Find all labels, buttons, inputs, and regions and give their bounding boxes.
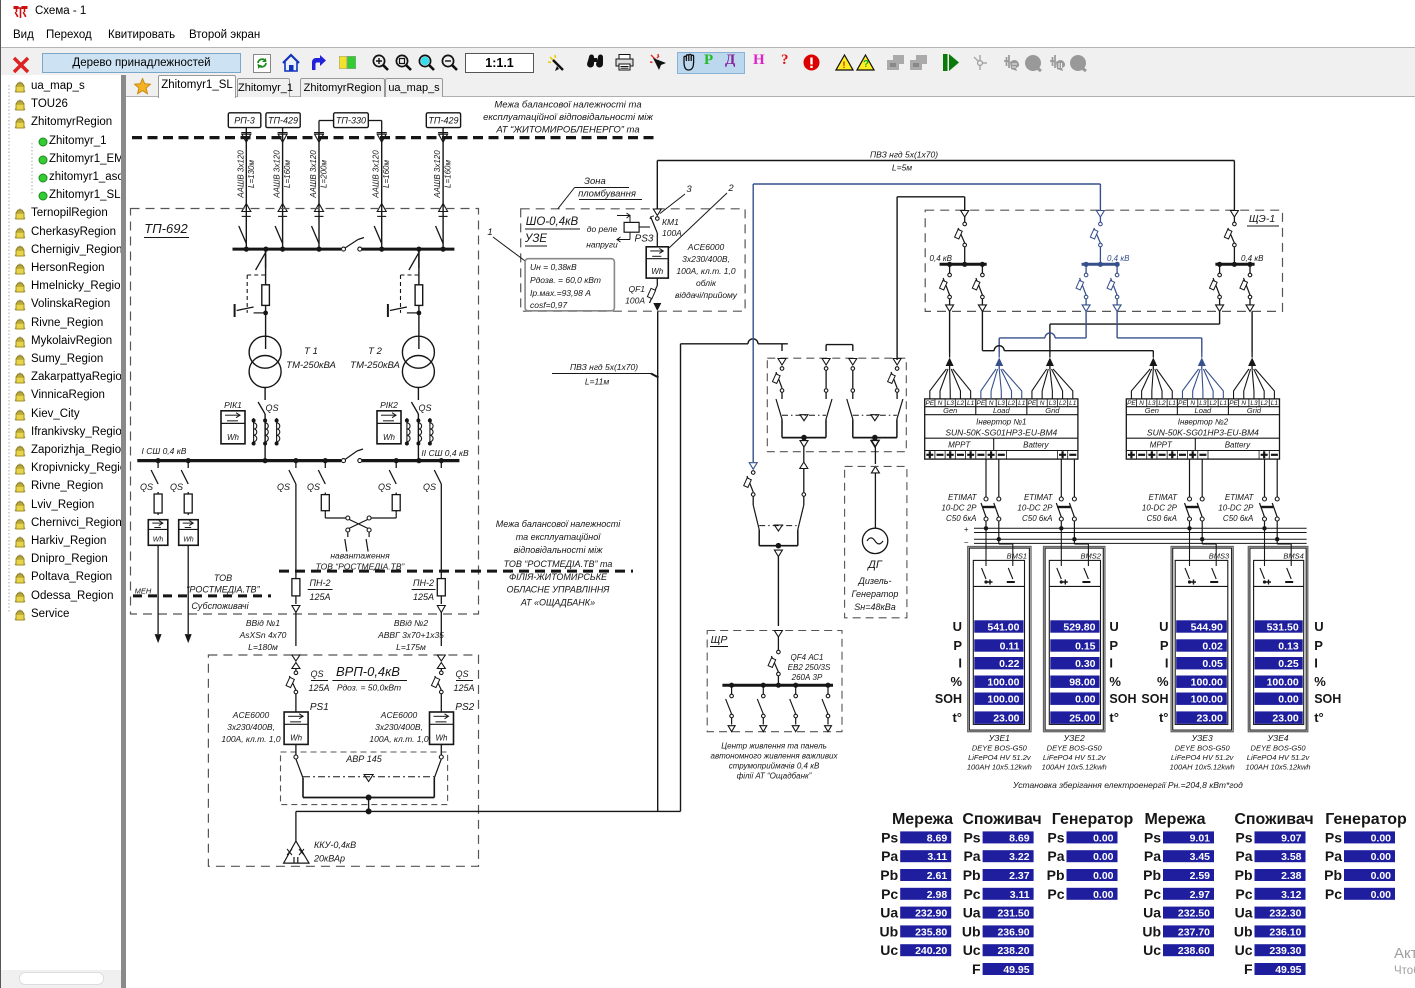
svg-text:125А: 125А xyxy=(308,683,329,693)
svg-text:232.30: 232.30 xyxy=(1269,908,1301,920)
measurement table Генератор @1065 xyxy=(1047,811,1134,902)
svg-text:УЗЕ3: УЗЕ3 xyxy=(1191,733,1213,743)
svg-text:PE: PE xyxy=(1178,400,1187,407)
svg-text:541.00: 541.00 xyxy=(987,621,1019,633)
meter РІК1 (Wh) xyxy=(221,400,245,444)
svg-text:Межа балансової належності: Межа балансової належності xyxy=(496,519,622,529)
measurement labels col2 xyxy=(1109,619,1136,725)
svg-text:С50 6кА: С50 6кА xyxy=(946,514,976,523)
svg-text:Pc: Pc xyxy=(963,886,980,902)
svg-text:F: F xyxy=(972,961,981,977)
svg-text:ШО-0,4кВ: ШО-0,4кВ xyxy=(526,216,579,228)
breaker ЕТІМАТ 4 10-DC 2Р С50 6кА xyxy=(1260,459,1280,541)
svg-text:3х230/400В,: 3х230/400В, xyxy=(227,722,275,732)
svg-text:до реле: до реле xyxy=(587,224,618,234)
svg-text:0.02: 0.02 xyxy=(1202,640,1223,652)
svg-text:віддачі/прийому: віддачі/прийому xyxy=(675,290,738,300)
svg-text:544.90: 544.90 xyxy=(1191,621,1223,633)
battery cabinet УЗЕ1 (BMS1) xyxy=(968,528,1031,731)
svg-text:автономного живлення важливих: автономного живлення важливих xyxy=(711,752,839,761)
svg-text:РІК2: РІК2 xyxy=(380,400,398,410)
svg-text:ДГ: ДГ xyxy=(866,559,883,571)
svg-text:49.95: 49.95 xyxy=(1003,964,1029,976)
svg-text:0.00: 0.00 xyxy=(1371,832,1392,844)
svg-text:L=160м: L=160м xyxy=(382,160,391,188)
label ПВЗ нгд 5х(1х70) L=5м xyxy=(870,150,938,173)
ЩЭ-1 section 2 outgoing switch 1 xyxy=(1076,264,1090,311)
svg-text:ЕВ2 250/3S: ЕВ2 250/3S xyxy=(788,663,831,672)
svg-text:Wh: Wh xyxy=(153,536,164,543)
svg-text:0.00: 0.00 xyxy=(1093,851,1114,863)
svg-text:ОБЛАСНЕ УПРАВЛІННЯ: ОБЛАСНЕ УПРАВЛІННЯ xyxy=(507,585,611,595)
callout 3 with leader xyxy=(660,184,692,214)
svg-text:Pb: Pb xyxy=(1047,867,1065,883)
svg-text:100А, кл.т. 1,0: 100А, кл.т. 1,0 xyxy=(221,734,281,744)
svg-text:SOH: SOH xyxy=(1141,692,1168,706)
svg-text:Зона: Зона xyxy=(584,176,606,187)
svg-text:Uc: Uc xyxy=(880,942,898,958)
svg-text:U: U xyxy=(1109,619,1118,634)
svg-text:0.00: 0.00 xyxy=(1371,870,1392,882)
fuse label ПН-2 125А (2) xyxy=(412,578,436,602)
svg-text:0.00: 0.00 xyxy=(1371,889,1392,901)
svg-text:100.00: 100.00 xyxy=(987,694,1019,706)
label УЗЕ xyxy=(524,233,548,246)
svg-text:PS3: PS3 xyxy=(635,234,654,245)
АВР 145 dashed box xyxy=(281,752,448,805)
svg-text:Ps: Ps xyxy=(963,829,980,845)
svg-text:238.60: 238.60 xyxy=(1178,945,1210,957)
svg-text:3х230/400В,: 3х230/400В, xyxy=(682,254,730,264)
ЩЭ-1 section 2 input breaker xyxy=(1090,211,1104,264)
svg-text:PE: PE xyxy=(1127,400,1136,407)
svg-text:BMS1: BMS1 xyxy=(1007,552,1027,561)
TP-692 substation dashed box xyxy=(131,209,479,615)
svg-text:SOH: SOH xyxy=(1109,692,1136,706)
svg-text:I: I xyxy=(958,656,962,671)
battery cabinet УЗЕ3 (BMS3) xyxy=(1171,528,1233,731)
svg-text:98.00: 98.00 xyxy=(1069,677,1095,689)
svg-text:23.00: 23.00 xyxy=(1197,712,1223,724)
feeder cable 3 ААШВ 3х120 L=200м xyxy=(309,133,329,250)
svg-text:Дизель-: Дизель- xyxy=(858,576,892,586)
svg-text:Ub: Ub xyxy=(1234,923,1253,939)
svg-text:3.11: 3.11 xyxy=(1010,889,1030,901)
svg-text:PE: PE xyxy=(1229,400,1238,407)
svg-text:“РОСТМЕДІА.ТВ”: “РОСТМЕДІА.ТВ” xyxy=(186,585,260,595)
svg-text:ТП-692: ТП-692 xyxy=(144,221,188,236)
label ЩЭ-1 xyxy=(1247,213,1279,226)
svg-text:100АН 10х5.12kwh: 100АН 10х5.12kwh xyxy=(1042,763,1107,772)
label ТП-692 xyxy=(144,221,189,238)
svg-text:231.50: 231.50 xyxy=(997,908,1029,920)
inverter №1 box SUN-50K-SG01HP3-EU-BM4 xyxy=(925,399,1078,459)
svg-text:PS1: PS1 xyxy=(310,702,329,713)
svg-text:%: % xyxy=(1157,674,1169,689)
ATS-A input 1 (building) xyxy=(772,359,786,400)
svg-text:SUN-50K-SG01HP3-EU-BM4: SUN-50K-SG01HP3-EU-BM4 xyxy=(1147,427,1259,437)
svg-text:Споживач: Споживач xyxy=(962,811,1041,828)
wire ATS-C to generator xyxy=(871,438,879,529)
svg-text:Grid: Grid xyxy=(1045,406,1060,415)
svg-text:Ps: Ps xyxy=(1235,829,1252,845)
svg-text:L=160м: L=160м xyxy=(444,160,453,188)
svg-text:ТМ-250кВА: ТМ-250кВА xyxy=(350,360,400,371)
svg-text:Споживач: Споживач xyxy=(1234,811,1313,828)
svg-text:3.58: 3.58 xyxy=(1281,851,1302,863)
svg-text:АТ «ОЩАДБАНК»: АТ «ОЩАДБАНК» xyxy=(520,598,595,608)
svg-text:L=175м: L=175м xyxy=(396,642,426,652)
svg-text:L2: L2 xyxy=(1059,400,1067,407)
svg-text:PE: PE xyxy=(1028,400,1037,407)
fuse label ПН-2 125А (1) xyxy=(308,578,333,602)
svg-text:Pa: Pa xyxy=(1047,848,1064,864)
svg-text:232.50: 232.50 xyxy=(1178,908,1210,920)
voltage relay xyxy=(617,213,650,242)
svg-text:АВВГ 3х70+1х35: АВВГ 3х70+1х35 xyxy=(377,630,444,640)
svg-text:Pb: Pb xyxy=(1143,867,1161,883)
svg-text:239.30: 239.30 xyxy=(1269,945,1301,957)
svg-text:Pc: Pc xyxy=(1047,886,1064,902)
transformer T1 circles xyxy=(249,336,281,387)
svg-text:ВВід №1: ВВід №1 xyxy=(246,618,280,628)
measurement labels col1 (left) xyxy=(935,619,963,725)
callout 2 with leader xyxy=(669,183,734,248)
ЩР outgoing feeder 1 xyxy=(726,683,736,732)
svg-text:3: 3 xyxy=(686,184,692,195)
label ДГ Дизель-Генератор Sн=48кВа xyxy=(852,559,899,612)
svg-text:МЕН: МЕН xyxy=(135,587,152,596)
svg-text:С50 6кА: С50 6кА xyxy=(1147,514,1177,523)
label Центр живлення ... Ощадбанк xyxy=(711,742,839,781)
svg-text:10-DC 2Р: 10-DC 2Р xyxy=(1218,504,1254,513)
specs box Uн/Рдозв/Ір.мах/cosf xyxy=(525,259,614,311)
svg-text:напруги: напруги xyxy=(586,240,618,250)
measurement labels col3 xyxy=(1141,619,1169,725)
wire ЩЭ-1 sec1 to inverter1 Gen xyxy=(949,311,951,352)
svg-text:I: I xyxy=(1165,656,1169,671)
svg-text:УЗЕ4: УЗЕ4 xyxy=(1266,733,1288,743)
svg-text:QS: QS xyxy=(277,482,290,492)
svg-text:2.38: 2.38 xyxy=(1281,870,1302,882)
feeder cable 5 ААШВ 3х120 L=160м xyxy=(433,128,453,250)
transformer branch T2 xyxy=(388,249,423,349)
ЩР outgoing feeder 3 xyxy=(790,683,800,732)
substation link boxes РП-3 / ТП-429 / ТП-330 / ТП-429 xyxy=(228,113,460,133)
feeder to ВВід №2 xyxy=(423,461,445,646)
label T1 ТМ-250кВА xyxy=(286,346,336,371)
svg-text:U: U xyxy=(1159,619,1168,634)
svg-text:240.20: 240.20 xyxy=(915,945,947,957)
ЩЭ-1 bus section 3 xyxy=(1215,262,1254,267)
boundary note РОСТМЕДІА/ЖИТОМИРСЬКЕ xyxy=(496,519,622,608)
svg-text:!: ! xyxy=(843,60,846,70)
svg-text:L2: L2 xyxy=(1261,400,1269,407)
svg-text:3.45: 3.45 xyxy=(1190,851,1211,863)
svg-text:−: − xyxy=(964,538,969,547)
svg-text:РП-3: РП-3 xyxy=(234,116,255,126)
junction to output bus xyxy=(366,798,372,815)
svg-text:Battery: Battery xyxy=(1023,440,1049,449)
svg-text:Pa: Pa xyxy=(881,848,898,864)
svg-text:Інвертор №2: Інвертор №2 xyxy=(1178,417,1229,426)
svg-text:LiFePO4 HV 51.2v: LiFePO4 HV 51.2v xyxy=(968,753,1032,762)
svg-text:0.15: 0.15 xyxy=(1075,640,1096,652)
label QF1 100А xyxy=(625,284,645,306)
inverter №1 Load wire fan xyxy=(981,366,1022,399)
ATS-B right input (from ATS-A) xyxy=(800,462,808,505)
ATS-C transfer mechanism (to generator) xyxy=(847,399,903,447)
label ШО-0,4кВ xyxy=(525,216,580,229)
svg-text:238.20: 238.20 xyxy=(997,945,1029,957)
svg-text:100.00: 100.00 xyxy=(1267,677,1299,689)
svg-text:Battery: Battery xyxy=(1225,440,1251,449)
0.4kV bus II СШ xyxy=(362,448,469,461)
svg-text:ТП-330: ТП-330 xyxy=(336,116,366,126)
svg-text:Актив: Актив xyxy=(1394,945,1415,962)
generator ДГ symbol xyxy=(862,528,887,553)
svg-text:0.00: 0.00 xyxy=(1371,851,1392,863)
svg-text:L2: L2 xyxy=(957,400,965,407)
ATS-A transfer mechanism xyxy=(776,399,832,462)
ЩЭ-1 bus section 2 xyxy=(1082,262,1120,267)
svg-text:РІК1: РІК1 xyxy=(224,400,242,410)
jumper п-bridge xyxy=(826,345,853,351)
svg-text:2.97: 2.97 xyxy=(1190,889,1211,901)
measurement table Споживач @981 xyxy=(962,811,1042,977)
svg-text:ACE6000: ACE6000 xyxy=(687,242,725,252)
ЩЭ-1 section 1 outgoing switch 2 xyxy=(972,264,986,311)
reserve feeder QS (right) xyxy=(378,461,400,513)
label QF4 АС1 ЕВ2 250/3S 260А 3Р xyxy=(788,653,831,682)
svg-text:Pb: Pb xyxy=(963,867,981,883)
measurement table Мережа @1162 xyxy=(1142,811,1214,958)
QS disconnector under T2 xyxy=(411,388,431,461)
svg-text:Т 2: Т 2 xyxy=(368,346,382,357)
svg-text:235.80: 235.80 xyxy=(915,926,947,938)
svg-text:ТОВ: ТОВ xyxy=(214,573,232,583)
svg-text:2.37: 2.37 xyxy=(1009,870,1030,882)
value stack УЗЕ2 xyxy=(1050,620,1099,724)
svg-text:260А 3Р: 260А 3Р xyxy=(791,673,823,682)
svg-text:ААШВ 3х120: ААШВ 3х120 xyxy=(433,150,442,199)
blue wire: ЩЭ-1 to АВР (ПВЗ) xyxy=(753,184,1100,462)
svg-text:Генератор: Генератор xyxy=(1325,811,1407,828)
svg-text:Ps: Ps xyxy=(1325,829,1342,845)
svg-text:MPPT: MPPT xyxy=(948,440,971,449)
svg-text:%: % xyxy=(1109,674,1121,689)
svg-text:49.95: 49.95 xyxy=(1275,964,1301,976)
svg-text:Ps: Ps xyxy=(881,829,898,845)
svg-text:N: N xyxy=(1139,400,1144,407)
svg-text:237.70: 237.70 xyxy=(1178,926,1210,938)
output wire to riser xyxy=(296,810,681,812)
ATS-C input 1 xyxy=(849,359,857,400)
bus tie (open) 0.4kV xyxy=(342,449,364,463)
svg-text:0,4 кВ: 0,4 кВ xyxy=(930,254,953,263)
dashed boundary МЕН/Субспоживачі xyxy=(133,594,271,597)
svg-text:9.07: 9.07 xyxy=(1281,832,1302,844)
svg-text:облік: облік xyxy=(696,278,717,288)
svg-text:0,4 кВ: 0,4 кВ xyxy=(1241,254,1264,263)
svg-text:Load: Load xyxy=(993,406,1011,415)
svg-text:Ua: Ua xyxy=(880,905,898,921)
svg-text:I: I xyxy=(1314,656,1318,671)
svg-text:ПН-2: ПН-2 xyxy=(309,578,330,588)
svg-text:Ua: Ua xyxy=(1143,905,1161,921)
svg-text:Ua: Ua xyxy=(963,905,981,921)
svg-text:PS2: PS2 xyxy=(455,702,474,713)
svg-text:125А: 125А xyxy=(309,592,330,602)
label ПВЗ нгд 5х(1х70) L=11м xyxy=(552,362,659,387)
10kV bus section I xyxy=(233,248,342,251)
windows activation watermark xyxy=(1394,945,1415,977)
svg-text:QS: QS xyxy=(310,669,323,679)
ЩЭ-1 section 2 outgoing switch 2 xyxy=(1107,264,1121,311)
svg-text:Load: Load xyxy=(1195,406,1213,415)
inverter №2 Gen wire fan xyxy=(1131,366,1172,399)
feeder cable 4 ААШВ 3х120 L=160м xyxy=(372,133,392,250)
svg-text:QF4 АС1: QF4 АС1 xyxy=(791,653,824,662)
svg-text:U: U xyxy=(1314,619,1323,634)
svg-text:23.00: 23.00 xyxy=(993,712,1019,724)
battery cabinet УЗЕ2 (BMS2) xyxy=(1044,528,1105,731)
svg-text:Wh: Wh xyxy=(436,733,449,742)
svg-text:531.50: 531.50 xyxy=(1267,621,1299,633)
svg-text:ТМ-250кВА: ТМ-250кВА xyxy=(286,360,336,371)
svg-text:SUN-50K-SG01HP3-EU-BM4: SUN-50K-SG01HP3-EU-BM4 xyxy=(945,427,1057,437)
svg-text:AsXSn 4х70: AsXSn 4х70 xyxy=(239,630,287,640)
measurement table Генератор @1343 xyxy=(1324,811,1407,902)
svg-text:2: 2 xyxy=(727,183,734,194)
riser wire building (x=679.5) xyxy=(681,339,788,812)
input switch QS 125А / meter PS1 xyxy=(284,655,329,744)
svg-text:L1: L1 xyxy=(1069,400,1077,407)
ЩЭ-1 dashed box xyxy=(925,210,1282,311)
svg-text:ААШВ 3х120: ААШВ 3х120 xyxy=(273,150,282,199)
svg-text:АТ “ЖИТОМИРОБЛЕНЕРГО” та: АТ “ЖИТОМИРОБЛЕНЕРГО” та xyxy=(495,125,639,136)
blue wire to inverter2 Load xyxy=(1117,311,1202,352)
svg-text:QS: QS xyxy=(265,403,278,413)
measurement table Споживач @1253 xyxy=(1234,811,1314,977)
ЩЭ-1 section 3 outgoing switch 1 xyxy=(1210,264,1224,311)
svg-text:L1: L1 xyxy=(967,400,975,407)
svg-text:ААШВ 3х120: ААШВ 3х120 xyxy=(309,150,318,199)
svg-text:Pa: Pa xyxy=(1144,848,1161,864)
meter PS3 (Wh, ACE6000) xyxy=(646,247,668,278)
input switch QS 125А / meter PS2 xyxy=(430,655,475,744)
svg-text:ЕТІМАТ: ЕТІМАТ xyxy=(948,493,978,502)
svg-text:QS: QS xyxy=(418,403,431,413)
svg-text:I: I xyxy=(1109,656,1113,671)
svg-text:+: + xyxy=(964,525,969,534)
svg-text:Uc: Uc xyxy=(1143,942,1161,958)
svg-text:100А: 100А xyxy=(625,296,645,306)
ATS dashed box xyxy=(767,358,906,452)
svg-text:експлуатаційної відповідальнос: експлуатаційної відповідальності між xyxy=(483,112,653,123)
svg-text:%: % xyxy=(1314,674,1326,689)
svg-text:QS: QS xyxy=(140,482,153,492)
ЩР dashed box xyxy=(707,631,842,732)
svg-text:пломбування: пломбування xyxy=(578,189,636,200)
wire: УЗЕ to ЩЭ-1 (ПВЗ L=5м) xyxy=(657,161,1234,212)
transformer branch T1 xyxy=(235,249,270,349)
label ТОВ РОСТМЕДІА.ТВ xyxy=(186,573,260,595)
breaker ЕТІМАТ 1 10-DC 2Р С50 6кА xyxy=(981,459,1001,541)
label КМ1 100А xyxy=(662,217,682,238)
meter text ACE6000 (PS3) xyxy=(675,242,738,300)
meter text ACE6000 (PS2) xyxy=(369,710,429,744)
svg-text:%: % xyxy=(950,674,962,689)
svg-text:DEYE BOS-G50: DEYE BOS-G50 xyxy=(1047,744,1103,753)
svg-text:Pa: Pa xyxy=(1325,848,1342,864)
svg-text:BMS2: BMS2 xyxy=(1080,552,1101,561)
battery label УЗЕ4 DEYE BOS-G50 xyxy=(1246,733,1311,772)
svg-text:Мережа: Мережа xyxy=(1144,811,1205,828)
svg-text:Wh: Wh xyxy=(383,433,396,442)
svg-text:ТП-429: ТП-429 xyxy=(268,116,298,126)
ЩЭ-1 section 1 outgoing switch 1 xyxy=(940,264,954,311)
svg-text:23.00: 23.00 xyxy=(1272,712,1298,724)
svg-text:100А, кл.т. 1,0: 100А, кл.т. 1,0 xyxy=(369,734,429,744)
svg-text:F: F xyxy=(1244,961,1253,977)
svg-text:Ub: Ub xyxy=(962,923,981,939)
svg-text:BMS4: BMS4 xyxy=(1283,552,1303,561)
svg-text:Gen: Gen xyxy=(943,406,957,415)
ЩР outgoing feeder 4 xyxy=(822,683,832,732)
boundary: balance ownership line (top) xyxy=(132,136,658,139)
svg-text:QF1: QF1 xyxy=(628,284,645,294)
АВР transfer mechanism xyxy=(294,744,443,800)
0.4kV bus I СШ xyxy=(137,446,341,461)
svg-text:L1: L1 xyxy=(1018,400,1026,407)
label ЕТІМАТ 3 xyxy=(1142,493,1178,523)
svg-text:Pc: Pc xyxy=(1144,886,1161,902)
svg-text:LiFePO4 HV 51.2v: LiFePO4 HV 51.2v xyxy=(1171,753,1235,762)
svg-text:Генератор: Генератор xyxy=(1052,811,1134,828)
svg-text:ВРП-0,4кВ: ВРП-0,4кВ xyxy=(336,664,400,679)
svg-text:0.22: 0.22 xyxy=(999,658,1020,670)
outgoing feeder consumer 2 xyxy=(170,461,198,643)
svg-text:0.00: 0.00 xyxy=(1093,870,1114,882)
svg-text:QS: QS xyxy=(307,482,320,492)
svg-text:Установка зберігання електроен: Установка зберігання електроенергії Рн.=… xyxy=(1012,780,1243,790)
svg-text:BMS3: BMS3 xyxy=(1209,552,1230,561)
svg-text:0,4 кВ: 0,4 кВ xyxy=(1107,254,1130,263)
svg-text:N: N xyxy=(1241,400,1246,407)
svg-text:Ub: Ub xyxy=(1142,923,1161,939)
breaker QF4 xyxy=(768,631,782,685)
svg-text:232.90: 232.90 xyxy=(915,908,947,920)
svg-text:100АН 10х5.12kwh: 100АН 10х5.12kwh xyxy=(1246,763,1311,772)
svg-text:ПН-2: ПН-2 xyxy=(413,578,434,588)
svg-text:ЩЭ-1: ЩЭ-1 xyxy=(1249,213,1275,225)
svg-text:L=200м: L=200м xyxy=(320,160,329,188)
svg-text:N: N xyxy=(1040,400,1045,407)
battery label УЗЕ1 DEYE BOS-G50 xyxy=(967,733,1032,772)
svg-text:Pc: Pc xyxy=(1235,886,1252,902)
svg-text:Субспоживачі: Субспоживачі xyxy=(191,601,249,611)
svg-text:ACE6000: ACE6000 xyxy=(380,710,418,720)
inverter №2 Grid wire fan xyxy=(1234,366,1275,399)
svg-text:SOH: SOH xyxy=(1314,692,1341,706)
svg-text:Pa: Pa xyxy=(1235,848,1252,864)
outgoing feeder МЕН xyxy=(135,461,168,643)
label ККУ-0,4кВ 20кВАр xyxy=(313,840,356,864)
svg-text:ААШВ 3х120: ААШВ 3х120 xyxy=(236,150,245,199)
svg-text:Wh: Wh xyxy=(227,433,240,442)
breaker ЕТІМАТ 3 10-DC 2Р С50 6кА xyxy=(1185,459,1205,541)
